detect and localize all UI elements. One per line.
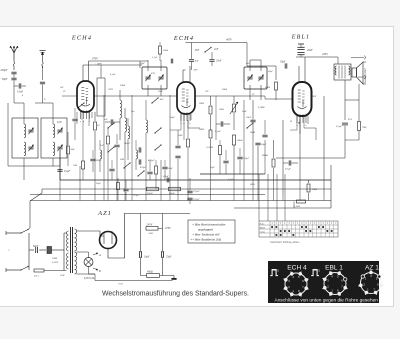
svg-text:B: B — [99, 270, 101, 273]
svg-text:EBL 1: EBL 1 — [325, 265, 343, 272]
svg-text:4nF: 4nF — [195, 60, 199, 63]
svg-text:1MΩ: 1MΩ — [52, 257, 57, 260]
svg-text:50pF: 50pF — [2, 78, 8, 81]
svg-text:470V: 470V — [92, 58, 98, 61]
svg-text:AZ1: AZ1 — [97, 210, 112, 217]
svg-text:8nF: 8nF — [246, 63, 250, 65]
svg-text:50pF: 50pF — [268, 71, 273, 73]
svg-text:20kΩ: 20kΩ — [222, 89, 227, 91]
svg-text:1,5kΩ: 1,5kΩ — [294, 205, 300, 208]
svg-text:a: a — [80, 121, 82, 123]
svg-text:0,3MΩ: 0,3MΩ — [258, 107, 265, 109]
svg-text:Osz.: Osz. — [131, 111, 135, 113]
svg-text:-13V: -13V — [118, 283, 123, 286]
svg-text:0,1μF: 0,1μF — [336, 125, 342, 128]
svg-text:0,1μF: 0,1μF — [110, 74, 116, 76]
svg-text:25nF: 25nF — [158, 91, 163, 93]
svg-text:angekoppelt: angekoppelt — [198, 228, 213, 232]
svg-text:25nF: 25nF — [216, 60, 222, 63]
svg-text:0,1μF: 0,1μF — [285, 168, 291, 171]
svg-text:2kΩ: 2kΩ — [149, 232, 153, 235]
svg-text:5MΩ: 5MΩ — [250, 184, 255, 186]
svg-text:50Ω: 50Ω — [178, 134, 183, 137]
svg-text:k: k — [189, 123, 190, 125]
svg-text:4: 4 — [22, 94, 24, 97]
svg-text:A: A — [98, 254, 101, 257]
svg-text:100pF: 100pF — [96, 160, 103, 162]
svg-text:470pF: 470pF — [148, 159, 155, 162]
svg-text:50Ω: 50Ω — [120, 159, 124, 161]
svg-text:30pF: 30pF — [170, 117, 175, 119]
svg-text:+ Hier Bereichsumschalter: + Hier Bereichsumschalter — [192, 223, 227, 227]
svg-text:20pF: 20pF — [96, 183, 101, 185]
svg-text:EBL1: EBL1 — [291, 35, 310, 41]
svg-text:ECH 4: ECH 4 — [287, 265, 307, 272]
svg-text:2MΩ: 2MΩ — [199, 128, 204, 131]
svg-text:g: g — [183, 123, 185, 125]
svg-text:g: g — [83, 121, 85, 123]
svg-text:1MΩ: 1MΩ — [219, 109, 224, 111]
svg-text:200Ω: 200Ω — [250, 132, 255, 134]
svg-text:50kΩ: 50kΩ — [120, 85, 125, 87]
svg-text:0,1μF: 0,1μF — [64, 170, 71, 173]
svg-text:1kΩ: 1kΩ — [73, 165, 77, 167]
svg-text:470pF: 470pF — [140, 166, 147, 169]
svg-text:8nF: 8nF — [195, 49, 200, 52]
svg-text:100pF: 100pF — [0, 69, 8, 72]
svg-text:40nF: 40nF — [307, 49, 313, 52]
svg-text:1MΩ: 1MΩ — [199, 102, 204, 105]
svg-text:2MΩ: 2MΩ — [312, 188, 317, 191]
svg-text:50pF: 50pF — [210, 167, 215, 169]
svg-text:2nF: 2nF — [60, 87, 64, 89]
svg-text:++ Hier Bandbreite 2kΩ: ++ Hier Bandbreite 2kΩ — [190, 238, 222, 242]
svg-text:2kΩ: 2kΩ — [71, 149, 75, 151]
svg-text:245V: 245V — [147, 223, 153, 226]
svg-text:63V: 63V — [151, 72, 156, 75]
svg-text:+ Hier Tonblende 4nF: + Hier Tonblende 4nF — [192, 233, 220, 237]
svg-text:50μF: 50μF — [280, 61, 286, 64]
svg-text:a: a — [180, 123, 182, 125]
svg-text:Wechselstromausführung des Sta: Wechselstromausführung des Standard-Supe… — [102, 291, 249, 298]
svg-text:65kΩ: 65kΩ — [147, 192, 153, 195]
svg-text:~: ~ — [8, 248, 10, 252]
svg-text:470V: 470V — [165, 227, 171, 230]
svg-text:60nF: 60nF — [33, 245, 39, 248]
svg-text:3,3nF: 3,3nF — [17, 91, 24, 94]
svg-text:A: A — [289, 120, 292, 123]
svg-text:3,3nF: 3,3nF — [152, 57, 158, 59]
svg-text:Lang: Lang — [260, 231, 266, 233]
svg-text:Kurz: Kurz — [260, 222, 265, 225]
svg-text:g: g — [299, 125, 301, 127]
svg-text:30V: 30V — [194, 69, 199, 72]
svg-text:4MΩ: 4MΩ — [265, 86, 270, 89]
svg-text:0,3MΩ: 0,3MΩ — [207, 147, 214, 149]
svg-text:63V: 63V — [348, 118, 353, 121]
svg-text:50kΩ: 50kΩ — [237, 139, 243, 142]
svg-text:Gezeichnet: Stellung »Kurz«: Gezeichnet: Stellung »Kurz« — [270, 241, 301, 244]
svg-text:k: k — [305, 125, 306, 127]
svg-text:2V: 2V — [63, 91, 66, 93]
svg-text:140pF: 140pF — [124, 142, 131, 145]
svg-text:AZ 1: AZ 1 — [365, 265, 379, 272]
svg-text:+100V: +100V — [95, 62, 102, 65]
svg-text:10nF: 10nF — [168, 168, 173, 170]
svg-text:Mittel: Mittel — [260, 226, 266, 229]
svg-text:0,25W: 0,25W — [52, 261, 59, 264]
svg-text:40kΩ: 40kΩ — [147, 270, 153, 273]
svg-text:405V: 405V — [226, 39, 232, 42]
svg-text:2V: 2V — [252, 94, 255, 96]
svg-text:375pF: 375pF — [193, 190, 200, 193]
svg-text:50: 50 — [97, 124, 100, 127]
svg-text:ECH4: ECH4 — [71, 35, 92, 42]
svg-text:190V: 190V — [311, 95, 317, 98]
svg-text:Anschlüsse von unten gegen die: Anschlüsse von unten gegen die Rohre ges… — [275, 298, 379, 304]
svg-text:10μF: 10μF — [144, 256, 150, 259]
svg-text:5nF: 5nF — [104, 119, 108, 121]
svg-text:25W: 25W — [60, 274, 66, 277]
svg-text:100pF: 100pF — [243, 158, 250, 160]
svg-text:C: C — [44, 98, 46, 101]
svg-text:8nF: 8nF — [160, 99, 164, 101]
svg-text:ECH4: ECH4 — [173, 35, 194, 42]
svg-text:0,1μF: 0,1μF — [228, 179, 234, 181]
svg-text:450V: 450V — [322, 53, 328, 56]
svg-text:6,3V: 6,3V — [57, 121, 62, 124]
svg-text:30nF: 30nF — [242, 111, 247, 113]
svg-text:100V: 100V — [108, 89, 113, 91]
svg-text:50pF: 50pF — [140, 63, 145, 65]
svg-text:30nF: 30nF — [246, 116, 252, 119]
svg-text:50μF: 50μF — [261, 143, 267, 146]
svg-text:75V: 75V — [205, 91, 209, 93]
svg-text:0,5μF: 0,5μF — [163, 175, 169, 178]
svg-text:70Ω: 70Ω — [362, 126, 367, 129]
svg-text:375pF: 375pF — [133, 195, 140, 197]
svg-text:30kΩ: 30kΩ — [163, 50, 168, 52]
svg-text:6,3V/0,3A: 6,3V/0,3A — [84, 277, 95, 280]
svg-text:4nF: 4nF — [214, 48, 219, 51]
svg-text:a: a — [296, 125, 298, 127]
svg-text:25μF: 25μF — [166, 256, 172, 259]
svg-text:0,5A: 0,5A — [34, 275, 39, 278]
